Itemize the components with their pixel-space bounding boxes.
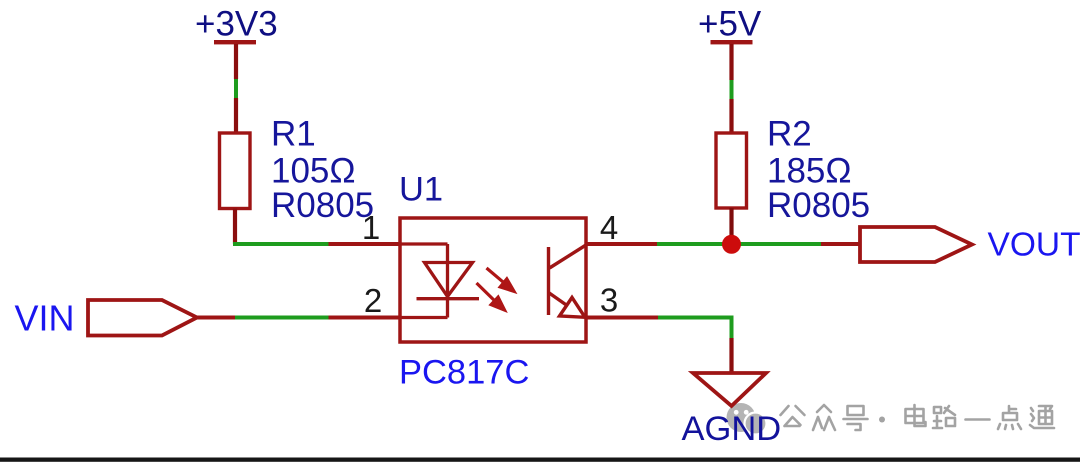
wire VOUT net (green row 1 right) [657, 242, 821, 246]
resistor R2 pin bottom [729, 208, 733, 240]
路 [933, 406, 955, 428]
U1 pin 1 lead [329, 242, 401, 246]
电 [906, 405, 926, 426]
一 [966, 418, 990, 421]
U1 LED [400, 244, 479, 318]
port VOUT [860, 227, 972, 262]
svg-text:VOUT: VOUT [988, 226, 1080, 263]
junction dot [722, 235, 741, 254]
svg-text:R0805: R0805 [767, 186, 870, 225]
· [879, 417, 885, 423]
svg-text:AGND: AGND [682, 410, 782, 448]
resistor R1 body [220, 133, 251, 209]
svg-text:2: 2 [364, 282, 382, 319]
wire VIN net (green) [235, 316, 329, 320]
svg-text:3: 3 [600, 282, 618, 319]
port VIN [88, 300, 197, 336]
optocoupler U1 body [400, 218, 586, 342]
wire net VIN_R (row 1 left, green) [233, 242, 329, 246]
resistor R1 pin bottom [233, 209, 237, 244]
power +3V3 bar [214, 40, 256, 44]
port VOUT pin [821, 242, 860, 246]
power +3V3 pin [234, 44, 238, 79]
U1 pin 4 lead [586, 242, 657, 246]
resistor R2 body [716, 133, 747, 208]
svg-text:+5V: +5V [698, 4, 762, 43]
U1 phototransistor [549, 245, 587, 317]
众 [813, 405, 835, 430]
公 [781, 406, 805, 426]
ground AGND pin [729, 338, 733, 373]
power +5V pin [729, 44, 733, 80]
通 [1030, 406, 1054, 428]
ground AGND symbol [693, 373, 766, 406]
resistor R2 pin top [729, 99, 733, 133]
svg-text:R1: R1 [271, 115, 316, 154]
U1 pin 2 lead [329, 316, 401, 320]
wire +3V3 net vertical [234, 79, 238, 98]
svg-text:1: 1 [362, 209, 380, 246]
resistor R1 pin top [234, 98, 238, 133]
svg-text:+3V3: +3V3 [195, 4, 278, 43]
svg-text:R2: R2 [767, 115, 812, 154]
wire +5V net vertical [730, 80, 734, 99]
U1 light arrows [477, 268, 515, 310]
port VIN pin [197, 316, 235, 320]
wire AGND net vertical (green) [730, 316, 734, 339]
watermark logo [727, 403, 767, 435]
svg-text:VIN: VIN [15, 298, 75, 339]
U1 pin 3 lead [586, 316, 658, 320]
wire AGND net horizontal (green) [658, 316, 732, 320]
svg-text:PC817C: PC817C [399, 353, 529, 391]
svg-text:U1: U1 [399, 170, 443, 208]
watermark text 公众号·电路一点通 [781, 405, 1055, 430]
power +5V bar [711, 40, 753, 44]
svg-text:4: 4 [600, 209, 618, 246]
点 [998, 406, 1021, 429]
svg-text:R0805: R0805 [271, 186, 374, 225]
svg-text:105Ω: 105Ω [271, 151, 356, 190]
号 [844, 406, 868, 430]
svg-text:185Ω: 185Ω [767, 151, 852, 190]
